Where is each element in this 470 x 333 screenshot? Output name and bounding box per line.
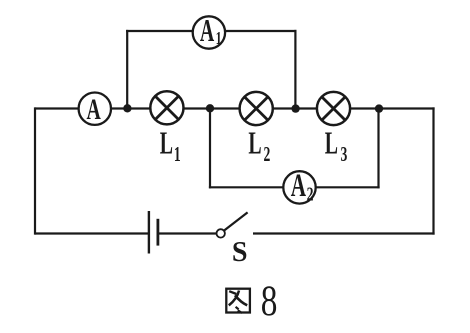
wire: lamp L1 to lamp L2 (184, 107, 240, 109)
wire: A2 branch left vertical (209, 109, 211, 189)
ammeter A2 (283, 166, 315, 205)
wire: A2 branch bottom left horizontal (209, 186, 283, 188)
node A (junction left of L1) (123, 104, 131, 112)
node B (junction between L1 and L2) (206, 104, 214, 112)
wire: lamp L3 to right corner (351, 107, 435, 109)
caption 图 (figure) character (226, 289, 250, 313)
svg-text:3: 3 (341, 142, 348, 166)
svg-text:2: 2 (307, 182, 314, 205)
svg-text:S: S (232, 237, 248, 268)
svg-text:A: A (291, 166, 306, 203)
lamp L3 (317, 92, 350, 125)
battery B1 short plate (negative) (156, 219, 159, 246)
wire: A2 branch bottom right horizontal (316, 186, 380, 188)
wire: lamp L2 to lamp L3 (273, 107, 317, 109)
label L1 (160, 126, 181, 166)
svg-text:8: 8 (261, 278, 278, 325)
wire: battery to switch segment (158, 232, 216, 234)
switch S pivot circle (217, 229, 225, 237)
svg-text:1: 1 (174, 142, 181, 166)
wire: main line left segment (35, 107, 79, 109)
node C (junction between L2 and L3) (291, 104, 299, 112)
lamp L1 (150, 91, 183, 124)
wire: left vertical (34, 107, 36, 234)
wire: A1 branch left vertical (126, 30, 128, 109)
svg-text:A: A (200, 14, 214, 49)
wire: A1 branch top right horizontal (226, 30, 297, 32)
node D (junction right of L3) (375, 104, 383, 112)
svg-text:A: A (87, 93, 102, 126)
wire: A2 branch right vertical (377, 109, 379, 189)
lamp L2 (240, 92, 273, 125)
wire: A1 branch right vertical (294, 30, 296, 109)
label L3 (325, 126, 348, 166)
wire: ammeter A to lamp L1 (112, 107, 151, 109)
svg-text:L: L (160, 126, 173, 161)
svg-text:1: 1 (216, 29, 222, 49)
svg-text:L: L (325, 126, 338, 161)
wire: bottom left segment (35, 232, 148, 234)
svg-text:L: L (248, 126, 261, 161)
wire: A1 branch top left horizontal (126, 30, 192, 32)
ammeter A1 (193, 14, 225, 49)
ammeter A (79, 93, 111, 127)
label L2 (248, 126, 270, 166)
svg-text:2: 2 (264, 142, 271, 166)
switch S blade (224, 212, 247, 230)
wire: bottom right segment (switch to right corner) (253, 232, 435, 234)
battery B1 long plate (positive) (148, 211, 150, 254)
wire: right vertical (432, 107, 434, 234)
